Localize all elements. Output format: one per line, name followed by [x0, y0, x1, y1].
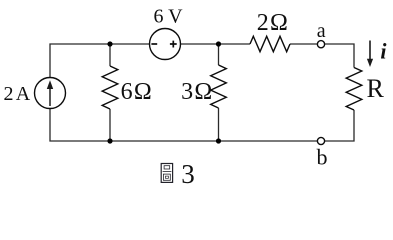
wire terminal a to top-right corner and down to R	[325, 44, 354, 68]
svg-text:R: R	[367, 74, 385, 103]
resistor 6-ohm zigzag	[102, 66, 118, 109]
caption figure glyph (CJK drawn as paths)	[161, 164, 172, 183]
current i arrow shaft	[369, 41, 371, 61]
node junction dot top-mid (3-ohm top)	[216, 41, 221, 46]
wire 3-ohm branch upper lead	[218, 44, 220, 65]
svg-text:6Ω: 6Ω	[121, 79, 153, 105]
wire top between voltage source and 2-ohm resistor	[181, 43, 250, 45]
current i arrow head	[367, 59, 373, 67]
svg-text:3: 3	[181, 159, 195, 187]
wire left branch lower (current source to bottom corner)	[50, 109, 317, 142]
voltage source minus sign	[151, 43, 157, 45]
node junction dot bottom-mid (3-ohm bottom)	[216, 138, 221, 143]
resistor R zigzag	[346, 68, 362, 111]
current source arrow shaft	[49, 88, 51, 107]
terminal a open circle	[317, 41, 324, 48]
wire top-left horizontal (left corner to voltage source)	[50, 44, 150, 78]
voltage source V1 circle	[150, 29, 181, 60]
svg-text:3Ω: 3Ω	[181, 79, 213, 105]
svg-text:6 V: 6 V	[154, 5, 184, 27]
svg-text:a: a	[317, 20, 326, 42]
node junction dot bottom-left (6-ohm bottom)	[107, 138, 112, 143]
wire terminal b to bottom-right corner and up to R	[325, 110, 354, 141]
svg-text:A: A	[16, 83, 31, 105]
resistor 3-ohm zigzag	[211, 65, 227, 108]
voltage source plus sign	[170, 41, 177, 48]
svg-text:2Ω: 2Ω	[257, 10, 289, 36]
svg-text:2: 2	[4, 83, 14, 105]
svg-text:b: b	[317, 145, 328, 170]
resistor 2-ohm zigzag	[250, 36, 290, 51]
wire 6-ohm branch lower lead	[109, 109, 111, 141]
svg-text:i: i	[380, 39, 387, 64]
current source I1 circle	[35, 78, 66, 109]
current source arrow head	[47, 80, 53, 89]
wire top between 2-ohm resistor and terminal a	[290, 43, 317, 45]
node junction dot top-left (6-ohm top)	[107, 41, 112, 46]
terminal b open circle	[317, 137, 324, 144]
wire 6-ohm branch upper lead	[109, 44, 111, 66]
wire 3-ohm branch lower lead	[218, 108, 220, 141]
